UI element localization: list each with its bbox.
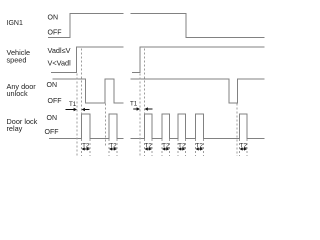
guideline at speed rising edge x=77 bbox=[76, 74, 78, 157]
svg-text:OFF: OFF bbox=[48, 98, 62, 105]
svg-text:unlock: unlock bbox=[7, 89, 28, 98]
waveform IGN1: OFF then ON at x=70, break at x=123.5-130.5, OFF at x=186 bbox=[48, 14, 265, 38]
guideline at relay pulse PE right edge x=247.2 bbox=[246, 139, 248, 156]
signal label Vehicle speed bbox=[7, 48, 31, 64]
level label OFF (IGN1) bbox=[48, 30, 62, 37]
level label ON (any door unlock) bbox=[47, 82, 58, 89]
svg-text:OFF: OFF bbox=[48, 30, 62, 37]
waveform any door unlock: ON, OFF at 85.5, pulse 105-114, break, ON, OFF pulse 229-237.5, ON bbox=[53, 79, 265, 103]
T1 delay annotation (right) bbox=[130, 101, 153, 111]
guideline at relay pulse PB right edge x=169.5 bbox=[169, 139, 171, 156]
signal label IGN1 bbox=[7, 20, 23, 27]
svg-text:relay: relay bbox=[7, 124, 23, 133]
T2 width annotation under pulse P1 bbox=[82, 143, 91, 151]
svg-text:V<Vadl: V<Vadl bbox=[48, 58, 72, 67]
level label OFF (door lock relay) bbox=[45, 129, 59, 136]
level label ON (door lock relay) bbox=[47, 115, 58, 122]
svg-text:Vadl≤V: Vadl≤V bbox=[48, 46, 71, 55]
guideline at relay pulse PC left edge x=178 bbox=[177, 139, 179, 156]
svg-text:ON: ON bbox=[47, 82, 58, 89]
T2 width annotation under pulse PE bbox=[240, 143, 248, 151]
level label V<Vadl (vehicle speed low) bbox=[48, 58, 72, 67]
T2 width annotation under pulse PC bbox=[178, 143, 186, 151]
T2 width annotation under pulse PB bbox=[162, 143, 170, 151]
waveform vehicle speed: low then high at x=76.5, break, low, high at x=140 bbox=[51, 47, 265, 73]
guideline at relay pulse P2 left edge x=109 bbox=[108, 139, 110, 156]
T2 width annotation under pulse PA bbox=[145, 143, 153, 151]
T2 width annotation under pulse PD bbox=[196, 143, 204, 151]
level label OFF (any door unlock) bbox=[48, 98, 62, 105]
svg-text:OFF: OFF bbox=[45, 129, 59, 136]
svg-text:speed: speed bbox=[7, 55, 27, 64]
guideline at door unlock rising edge x=237 bbox=[236, 104, 238, 157]
guideline at relay pulse PD left edge x=195.5 bbox=[195, 139, 197, 156]
svg-text:T1: T1 bbox=[130, 101, 138, 108]
svg-text:IGN1: IGN1 bbox=[7, 20, 23, 27]
guideline at second speed rising edge x=140 bbox=[139, 74, 141, 157]
guideline at door unlock rising edge x=105.5 bbox=[105, 104, 107, 148]
guideline at relay pulse PD right edge x=203.3 bbox=[202, 139, 204, 156]
T1 delay annotation (left) bbox=[66, 101, 90, 111]
guideline at relay pulse PA right edge x=152 bbox=[151, 139, 153, 156]
level label ON (IGN1) bbox=[48, 15, 59, 22]
guideline at relay pulse P2 right edge x=117 bbox=[116, 139, 118, 156]
signal label Any door unlock bbox=[7, 82, 37, 98]
svg-text:ON: ON bbox=[48, 15, 59, 22]
svg-text:ON: ON bbox=[47, 115, 58, 122]
level label Vadl<=V (vehicle speed high) bbox=[48, 46, 71, 55]
T2 width annotation under pulse P2 bbox=[109, 143, 117, 151]
guideline at relay pulse PE left edge x=239.5 bbox=[239, 139, 241, 156]
signal label Door lock relay bbox=[7, 117, 38, 133]
guideline at relay pulse PC right edge x=185.5 bbox=[185, 139, 187, 156]
guideline at relay pulse P1 left edge x=81.5 bbox=[81, 49, 83, 157]
waveform door lock relay: lock output pulses P1(81.5-90) P2(109-117), break, PA(144.5-152) PB(162-169.5) PC(178-185.5) PD(195.5-203.3) PE(239.5-247.2) bbox=[49, 114, 265, 139]
svg-text:T1: T1 bbox=[69, 101, 77, 108]
guideline at relay pulse PA left edge x=144.5 bbox=[144, 49, 146, 157]
guideline at relay pulse P1 right edge x=90 bbox=[89, 139, 91, 156]
guideline at relay pulse PB left edge x=162 bbox=[161, 139, 163, 156]
